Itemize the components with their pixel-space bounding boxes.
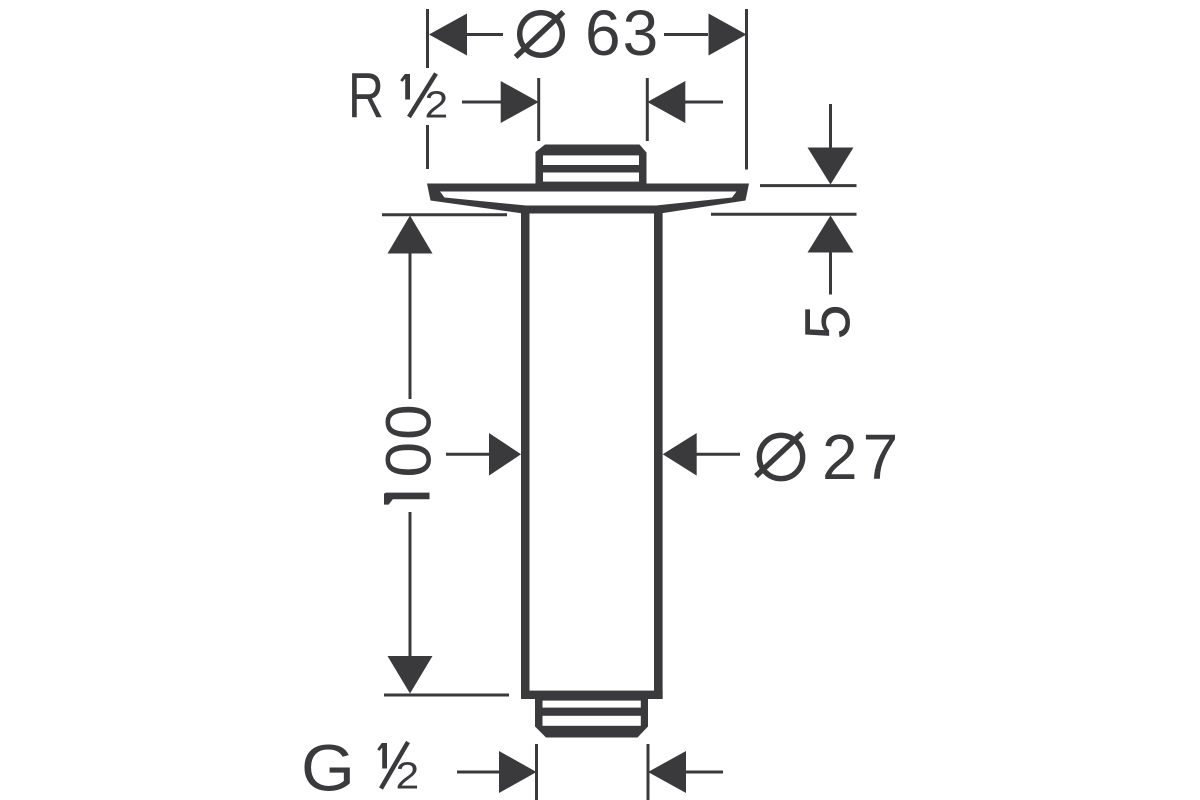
arrow R1/2 right <box>647 81 685 123</box>
upper thread R1/2 body <box>536 145 647 187</box>
svg-text:00: 00 <box>373 402 445 477</box>
pipe left wall <box>521 210 530 699</box>
arrow 5 down <box>808 148 854 185</box>
extension line 5 lower <box>711 213 857 216</box>
flange inner face <box>440 192 737 206</box>
dim line dia27 right tail <box>696 453 740 456</box>
extension line 5 upper <box>760 184 857 187</box>
pipe bottom edge <box>521 691 663 699</box>
dim line 5 lower stem <box>829 252 832 295</box>
label R fraction denominator 2 <box>427 91 446 118</box>
extension line R1/2 left <box>537 78 540 141</box>
dim line R1/2 left tail <box>462 101 502 104</box>
dim line 100 upper stem <box>409 253 412 399</box>
dim line 100 lower stem <box>409 512 412 656</box>
dim line dia63 right tail <box>664 33 708 36</box>
lower thread slot 1 <box>543 701 641 708</box>
extension line 100 upper <box>382 213 507 216</box>
dim line dia27 left tail <box>446 453 490 456</box>
extension line R1/2 right <box>646 78 649 141</box>
arrow G1/2 left <box>499 751 537 793</box>
label dia 27 diameter symbol <box>756 433 803 479</box>
lower thread G1/2 body <box>535 699 648 738</box>
arrow R1/2 left <box>501 81 539 123</box>
arrow 5 up <box>808 216 854 253</box>
dim line G1/2 left tail <box>457 771 500 774</box>
label G fraction slash <box>381 742 408 789</box>
lower thread slot 2 <box>543 716 641 726</box>
pipe right wall <box>654 210 663 699</box>
label 100 rotated: digit 1 drawn as path <box>384 493 430 505</box>
label R fraction slash <box>409 74 436 118</box>
upper thread slot 1 <box>543 155 639 165</box>
label G fraction numerator 1 <box>377 743 387 769</box>
extension line G1/2 left <box>535 744 538 800</box>
extension line G1/2 right <box>647 744 650 800</box>
extension line dia63 right <box>745 9 748 170</box>
arrow G1/2 right <box>648 751 686 793</box>
svg-text:G: G <box>301 731 355 800</box>
dim line G1/2 right tail <box>686 771 723 774</box>
label dia 63 diameter symbol <box>516 12 564 57</box>
svg-text:R: R <box>348 60 384 132</box>
arrow 100 up <box>388 216 433 254</box>
extension line dia63 left upper <box>426 9 429 68</box>
dim line 5 upper stem <box>829 104 832 149</box>
svg-text:63: 63 <box>585 0 660 69</box>
ceiling plate flange <box>427 184 749 214</box>
arrow dia63 right <box>709 14 747 56</box>
extension line dia63 left lower <box>426 125 429 169</box>
arrow dia27 left <box>489 433 521 476</box>
label R fraction numerator 1 <box>400 74 410 100</box>
upper thread slot 2 <box>543 173 639 182</box>
dim line dia63 left tail <box>467 33 503 36</box>
arrow dia63 left <box>429 14 467 56</box>
svg-text:27: 27 <box>822 421 903 493</box>
extension line 100 lower <box>384 694 509 697</box>
svg-text:5: 5 <box>792 304 864 340</box>
dim line R1/2 right tail <box>685 101 723 104</box>
arrow 100 down <box>388 656 433 694</box>
arrow dia27 right <box>663 433 697 476</box>
label G fraction denominator 2 <box>398 762 417 789</box>
